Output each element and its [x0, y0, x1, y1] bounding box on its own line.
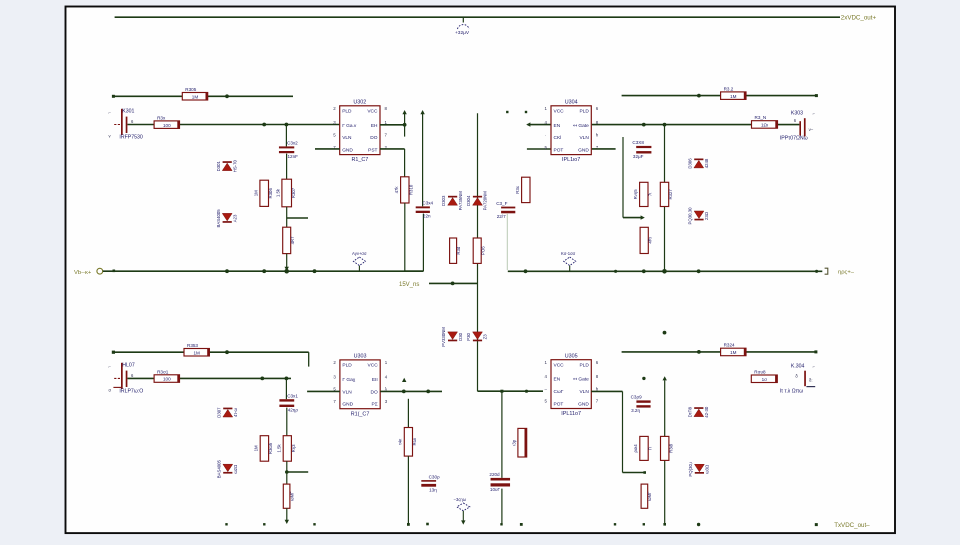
wire W2 gate line to U302: [128, 124, 340, 126]
capacitor C351 42nF: [285, 378, 287, 399]
svg-text:ωMΓ: ωMΓ: [647, 491, 652, 501]
svg-text:R3_N: R3_N: [755, 115, 767, 120]
transistor K302 (IRLP7530): [121, 363, 123, 389]
svg-text:Γ Ga.v: Γ Ga.v: [342, 123, 357, 129]
svg-text:R310: R310: [408, 184, 413, 195]
svg-text:R3σ1: R3σ1: [157, 369, 169, 374]
resistor R309 (vertical): [450, 238, 457, 263]
central net wire: [477, 113, 479, 391]
wire mid-left bus: [103, 270, 424, 272]
capacitor C359: [636, 400, 650, 402]
svg-text:P30: P30: [466, 332, 471, 340]
svg-text:HL07: HL07: [122, 362, 135, 368]
capacitor C3F 22uF: [506, 111, 508, 113]
op-amp U303 gate driver: [340, 360, 380, 409]
diode D305: [448, 332, 458, 340]
svg-text:220d: 220d: [489, 472, 500, 477]
svg-text:100: 100: [163, 123, 171, 128]
svg-text:K.304: K.304: [791, 363, 805, 369]
resistor R306 1M (vertical): [260, 180, 269, 206]
svg-text:ω3Ω: ω3Ω: [705, 464, 710, 474]
svg-text:CωΓ: CωΓ: [554, 389, 564, 395]
svg-text:1M: 1M: [192, 94, 199, 99]
capacitor C220 10uF: [501, 391, 503, 478]
capacitor C352 13n: [421, 480, 436, 482]
resistor R356 (vertical): [286, 472, 288, 484]
svg-text:PO6: PO6: [481, 246, 486, 255]
svg-text:12nF: 12nF: [288, 154, 299, 159]
wire W2 bottom gate line: [128, 377, 292, 379]
junctions on mid-left bus: [225, 269, 229, 273]
svg-text:HS-70: HS-70: [232, 160, 237, 173]
resistor R325 (vertical): [640, 182, 648, 206]
wire W1 top-left feedback: [113, 95, 293, 97]
svg-text:PA720NM: PA720NM: [483, 191, 488, 211]
svg-text:IRFP7530: IRFP7530: [119, 135, 142, 141]
svg-text:Rσυ8: Rσυ8: [754, 370, 766, 375]
wire U303 DO line right: [380, 390, 442, 392]
wire W1 bottom-left feedback: [113, 351, 309, 353]
svg-text:D301: D301: [216, 160, 221, 171]
svg-text:1.5k: 1.5k: [277, 444, 282, 453]
wire U302 PST bend down: [380, 148, 405, 150]
diode D316: [694, 211, 704, 219]
svg-text:13η: 13η: [429, 487, 437, 492]
svg-text:PST: PST: [368, 147, 377, 153]
resistor R307 (vertical): [286, 154, 288, 180]
svg-text:D304: D304: [466, 195, 471, 206]
op-amp U304 gate driver: [551, 106, 591, 155]
wire 15V_out net: [429, 282, 478, 284]
power arrow at EN node: [404, 112, 406, 137]
svg-text:K301: K301: [122, 109, 134, 115]
hierarchical pin nps+-: [825, 268, 828, 274]
capacitor C302 12nF: [285, 125, 287, 147]
svg-text:PΣ: PΣ: [372, 402, 378, 408]
resistor R362 100: [751, 375, 777, 383]
svg-text:GND: GND: [578, 147, 589, 153]
wire U304 gate line right: [592, 124, 800, 126]
svg-text:ηρς+–: ηρς+–: [838, 270, 855, 276]
capacitor C3X8: [636, 146, 651, 148]
svg-text:PQ(30,ι: PQ(30,ι: [688, 462, 693, 477]
diode D303: [448, 196, 457, 198]
wire to bottom bus: [286, 508, 288, 521]
resistor R310 (vertical): [401, 177, 409, 203]
svg-text:BAS4005: BAS4005: [216, 460, 221, 479]
svg-text:VCC: VCC: [554, 363, 565, 369]
wire R310 to bus loop: [404, 203, 406, 271]
resistor R355 (vertical): [286, 408, 288, 436]
svg-text:PLD: PLD: [342, 363, 352, 369]
svg-text:VLN: VLN: [342, 389, 352, 395]
svg-text:EII: EII: [372, 377, 378, 383]
transistor K304 (IPP3007N): [804, 371, 806, 387]
svg-text:IPL11ο7: IPL11ο7: [561, 411, 581, 417]
resistor R351 100: [154, 375, 179, 383]
svg-text:1M: 1M: [254, 445, 259, 451]
svg-text:C3_F: C3_F: [496, 201, 507, 206]
svg-text:CKl: CKl: [554, 135, 562, 141]
svg-text:Kσ-1σσ: Kσ-1σσ: [561, 251, 576, 256]
svg-text:42ηρ: 42ηρ: [288, 408, 299, 413]
svg-text:·: ·: [545, 133, 546, 138]
resistor R326 (vertical): [640, 227, 648, 253]
svg-text:15V_ns: 15V_ns: [399, 282, 419, 288]
svg-text:3.2η: 3.2η: [631, 408, 640, 413]
svg-text:DτΠ8: DτΠ8: [687, 406, 692, 417]
svg-text:R1_C7: R1_C7: [351, 157, 368, 163]
svg-text:1M: 1M: [194, 350, 201, 355]
svg-text:VLN: VLN: [342, 135, 352, 141]
svg-text:A23: A23: [232, 214, 237, 222]
svg-text:32μF: 32μF: [633, 154, 644, 159]
svg-text:C3x1: C3x1: [287, 393, 298, 398]
svg-text:4248: 4248: [704, 158, 709, 168]
svg-text:δ:: δ:: [809, 377, 813, 382]
svg-text:Aγν+σσ: Aγν+σσ: [352, 251, 367, 256]
svg-text:ωΜΓ: ωΜΓ: [289, 491, 294, 501]
wire stub right of R355: [286, 461, 288, 472]
svg-text:+32μV: +32μV: [455, 30, 470, 36]
svg-text:−3ςηω: −3ςηω: [454, 497, 467, 502]
wire U302 GND stub: [315, 148, 340, 150]
diode D308: [223, 464, 233, 472]
wire R308 to mid bus: [286, 254, 288, 270]
svg-text:DO: DO: [370, 389, 377, 395]
svg-text:DO: DO: [370, 135, 377, 141]
resistor R353 1M: [184, 349, 209, 357]
resistor R364 1M: [721, 348, 746, 356]
resistor R327 (vertical): [664, 125, 666, 272]
resistor R316 (vertical): [473, 238, 481, 263]
svg-text:PQ30,30: PQ30,30: [688, 207, 693, 225]
svg-text:C3X8: C3X8: [632, 140, 644, 145]
resistor R305 1M: [182, 93, 207, 101]
svg-text:GND: GND: [342, 402, 353, 408]
svg-text:POT: POT: [554, 401, 564, 407]
resistor R357 (vertical): [407, 399, 409, 428]
wire U302 EN to node: [380, 124, 405, 126]
resistor R522 (vertical): [518, 428, 527, 457]
wire central to U305 junctions: [500, 390, 503, 393]
resistor R311 (vertical): [525, 111, 527, 113]
svg-text:C3x2: C3x2: [287, 141, 298, 146]
resistor R301 100: [154, 121, 179, 128]
svg-text:GND: GND: [342, 147, 353, 153]
junction W2/R306: [262, 123, 266, 127]
svg-text:EN: EN: [554, 123, 561, 129]
wire U303 VLN stub: [307, 390, 340, 392]
diode D304: [473, 196, 482, 198]
junction W2/C302: [285, 123, 289, 127]
svg-text:1M: 1M: [730, 94, 737, 99]
svg-text:PLD: PLD: [579, 363, 589, 369]
svg-text:1M: 1M: [253, 190, 258, 196]
svg-text:R3.2: R3.2: [724, 86, 734, 91]
wire U304 POT stub: [527, 148, 551, 150]
svg-text:PLD: PLD: [579, 109, 589, 115]
junction squares on bottom bus: [225, 523, 227, 525]
svg-text:R1(_C7: R1(_C7: [351, 411, 370, 417]
svg-text:BAS4005: BAS4005: [216, 209, 221, 228]
wire U304 EN with arrow: [528, 124, 551, 126]
diode D315: [473, 332, 483, 340]
resistor R352 100: [752, 121, 778, 129]
wire U304 GND stub: [592, 148, 616, 150]
svg-text:R3ω5: R3ω5: [268, 442, 273, 454]
svg-text:R305: R305: [185, 87, 196, 92]
svg-text:VCC: VCC: [368, 363, 379, 369]
svg-text:PA735NM: PA735NM: [458, 191, 463, 211]
wire W1 top-right feedback: [622, 95, 817, 97]
resistor R358 (vertical): [640, 436, 648, 460]
svg-text:Γ Gaχ: Γ Gaχ: [342, 377, 355, 383]
op-amp U302 gate driver: [340, 106, 380, 155]
svg-text:4τ-ω: 4τ-ω: [233, 408, 238, 418]
svg-text:R324: R324: [724, 343, 735, 348]
svg-text:IPPτ07ΩNω: IPPτ07ΩNω: [780, 136, 808, 142]
svg-text:Rωι: Rωι: [412, 438, 417, 445]
transistor K303 (IPP3007N): [804, 118, 806, 136]
svg-text:C3x4: C3x4: [422, 201, 433, 206]
svg-text:D307: D307: [216, 407, 221, 418]
svg-text:R3ι8: R3ι8: [668, 443, 673, 452]
svg-text:R306: R306: [268, 188, 273, 199]
diode D306: [694, 159, 703, 161]
power arrow / wire to C310: [422, 112, 424, 206]
svg-text:47k: 47k: [394, 186, 399, 194]
svg-text:2xVDC_out+: 2xVDC_out+: [841, 15, 877, 22]
svg-text:1.5k: 1.5k: [275, 188, 280, 197]
svg-text:Rη3: Rη3: [291, 444, 296, 452]
svg-text:1M: 1M: [730, 350, 737, 355]
diode D301: [223, 161, 232, 163]
wire U305 VLN bend with stub: [591, 390, 622, 392]
power flag +32V: [462, 17, 464, 22]
svg-text:VLN: VLN: [579, 135, 589, 141]
wire W1 bottom-right feedback: [622, 351, 816, 353]
svg-text:D306: D306: [687, 158, 692, 169]
svg-text:VCC: VCC: [554, 109, 565, 115]
op-amp U305 gate driver: [551, 360, 591, 409]
resistor R308 (vertical): [286, 218, 288, 227]
wire stub right of R307: [286, 207, 288, 218]
svg-text:1σ: 1σ: [762, 377, 768, 382]
svg-text:ροι4: ροι4: [633, 444, 638, 453]
svg-text:Rνη5: Rνη5: [633, 189, 638, 200]
svg-text:↤ Gate: ↤ Gate: [573, 377, 589, 383]
wire VLN bend with arrow stub: [622, 137, 624, 218]
diode D318: [694, 407, 703, 409]
svg-text:22n: 22n: [423, 214, 431, 219]
svg-text:U303: U303: [354, 354, 367, 360]
svg-text:R353: R353: [187, 343, 198, 348]
svg-text:U302: U302: [353, 100, 366, 106]
svg-text:U304: U304: [565, 100, 578, 106]
svg-text:R327: R327: [668, 189, 673, 200]
svg-text:POT: POT: [554, 147, 564, 153]
svg-text:D303: D303: [441, 195, 446, 206]
resistor R366 (vertical): [641, 484, 648, 508]
svg-text:GND: GND: [578, 401, 589, 407]
svg-text:R3x: R3x: [515, 185, 520, 193]
svg-text:R307: R307: [291, 187, 296, 198]
svg-text:VLN: VLN: [579, 389, 589, 395]
diode D328: [695, 464, 705, 472]
svg-text:K303: K303: [791, 110, 803, 116]
svg-text:4R7: 4R7: [290, 236, 295, 244]
svg-text:ι3ρ: ι3ρ: [511, 439, 516, 445]
svg-text:ν–: ν–: [809, 127, 814, 132]
svg-text:10υΓ: 10υΓ: [490, 487, 501, 492]
svg-text:ΤxVDC_out–: ΤxVDC_out–: [834, 522, 870, 529]
svg-text:Iτ τ.iι Ωπω: Iτ τ.iι Ωπω: [780, 389, 804, 395]
svg-text:42-30: 42-30: [704, 406, 709, 418]
diode D302: [222, 213, 232, 221]
junction on W1: [225, 94, 229, 98]
isolated junction dots: [663, 331, 667, 335]
svg-text:ω2Ω: ω2Ω: [233, 464, 238, 474]
svg-text:7ι: 7ι: [647, 193, 652, 196]
svg-text:EH: EH: [371, 123, 378, 129]
svg-text:VCC: VCC: [367, 109, 378, 115]
svg-text:Γι: Γι: [648, 447, 653, 450]
svg-text:IPL1ιο7: IPL1ιο7: [562, 157, 580, 163]
resistor R354 1M (vertical): [260, 436, 268, 462]
svg-text:Vb--κ+: Vb--κ+: [74, 270, 92, 276]
svg-text:R3d: R3d: [456, 246, 461, 254]
transistor K301 (IRFP7530): [121, 109, 123, 135]
svg-text:PV330NM: PV330NM: [441, 327, 446, 347]
svg-text:C30ρ: C30ρ: [429, 474, 440, 479]
wire mid-right bus: [508, 270, 823, 272]
svg-text:C3ρ9: C3ρ9: [631, 395, 642, 400]
diode D307: [223, 408, 232, 410]
svg-text:PLD: PLD: [342, 109, 352, 115]
capacitor C310: [416, 206, 430, 208]
svg-text:D30: D30: [458, 332, 463, 340]
resistor R324 1M: [721, 92, 746, 100]
resistor R359 (vertical): [642, 377, 645, 380]
svg-text:↤ Gate: ↤ Gate: [573, 123, 589, 129]
svg-text:22/7: 22/7: [497, 214, 506, 219]
svg-text:τ4κ: τ4κ: [398, 438, 403, 445]
wire top supply rail: [115, 16, 840, 18]
svg-text:23Ω: 23Ω: [704, 211, 709, 220]
svg-text:IRLP7ω:O: IRLP7ω:O: [119, 389, 143, 395]
svg-text:Z3: Z3: [483, 334, 488, 340]
svg-text:4Rι: 4Rι: [648, 237, 653, 243]
svg-text:EN: EN: [554, 377, 561, 383]
svg-text:100: 100: [163, 377, 171, 382]
svg-text:U305: U305: [565, 354, 578, 360]
svg-text:1Ωι: 1Ωι: [761, 123, 768, 128]
svg-text:R3x: R3x: [157, 115, 166, 120]
